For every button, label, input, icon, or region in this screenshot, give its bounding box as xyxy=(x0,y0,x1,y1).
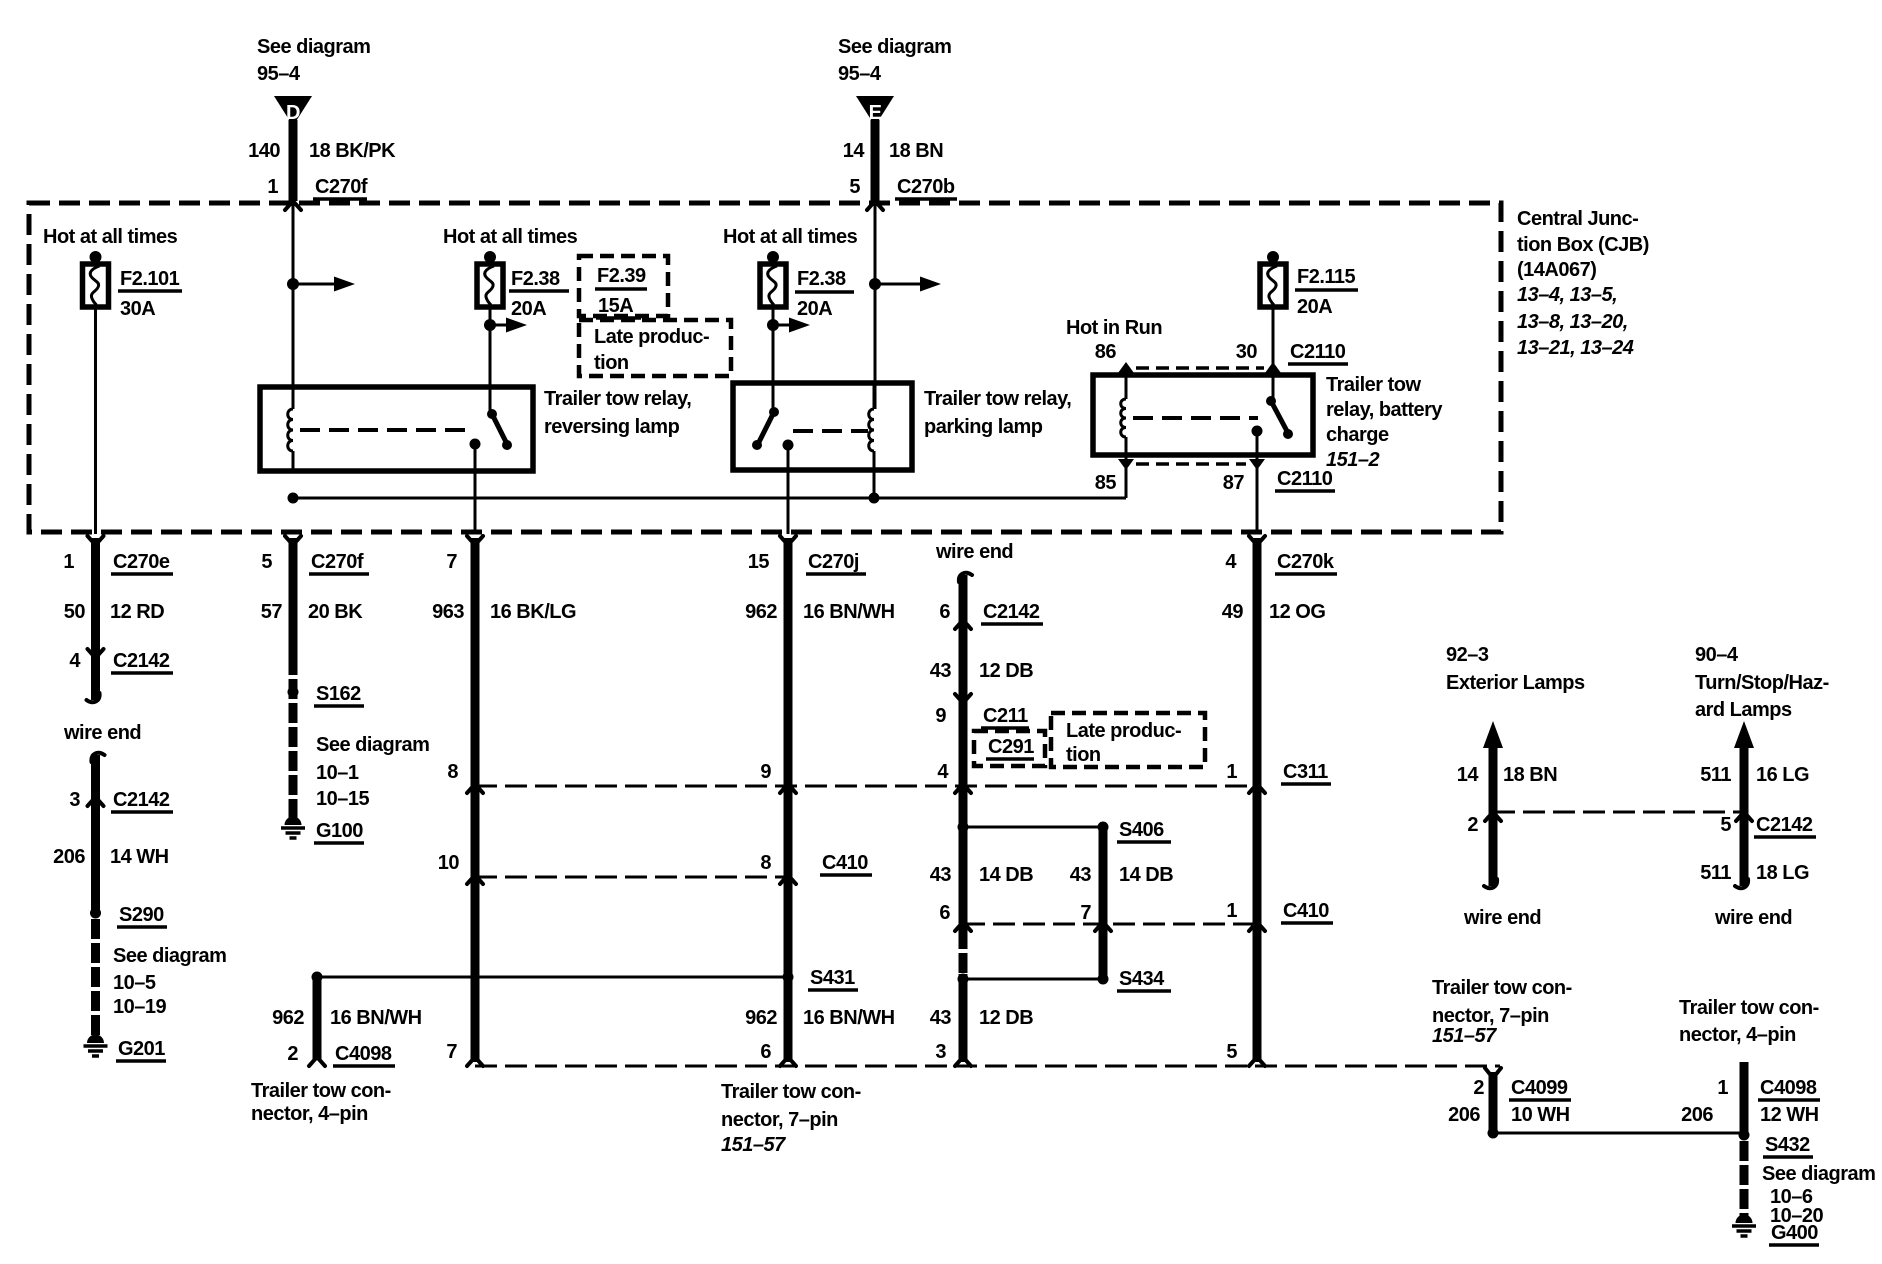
svg-text:F2.39: F2.39 xyxy=(597,265,646,287)
svg-text:151–2: 151–2 xyxy=(1326,449,1379,471)
svg-text:See diagram: See diagram xyxy=(838,36,951,58)
dashed link line pins 8-9-4-1 (C311 row) xyxy=(475,785,1257,788)
svg-text:95–4: 95–4 xyxy=(257,63,301,85)
svg-text:C4099: C4099 xyxy=(1511,1077,1568,1099)
svg-text:9: 9 xyxy=(935,705,946,727)
pin 2 chevron xyxy=(1467,812,1501,836)
label 962 16 BN/WH (upper) xyxy=(745,601,894,623)
relay 3 pin 86 arrow xyxy=(1118,362,1134,399)
svg-text:Hot in Run: Hot in Run xyxy=(1066,317,1162,339)
svg-text:Hot at all times: Hot at all times xyxy=(723,226,858,248)
label 511 18 LG xyxy=(1700,862,1809,884)
label wire end (center) xyxy=(935,541,1013,563)
svg-text:parking lamp: parking lamp xyxy=(924,416,1043,438)
svg-text:18 BK/PK: 18 BK/PK xyxy=(309,140,396,162)
svg-text:10–5: 10–5 xyxy=(113,972,156,994)
label 511 16 LG xyxy=(1700,764,1809,786)
svg-text:962: 962 xyxy=(745,1007,777,1029)
fuse F2.101 30A xyxy=(83,251,109,307)
dashed option box: Late production (connector) xyxy=(1051,713,1205,767)
svg-text:Hot at all times: Hot at all times xyxy=(443,226,578,248)
svg-text:43: 43 xyxy=(930,1007,952,1029)
relay 3 pin 85 arrow and wire xyxy=(1118,455,1134,498)
relay K: trailer tow relay, reversing lamp (box) xyxy=(260,387,533,471)
relay 2 switch blade xyxy=(752,407,779,450)
wire from S290 to G201 xyxy=(91,919,100,1036)
label 962 16 BN/WH (lower) xyxy=(745,1007,894,1029)
svg-text:10–19: 10–19 xyxy=(113,996,166,1018)
label 2 C4099 xyxy=(1473,1077,1571,1100)
svg-text:wire end: wire end xyxy=(1714,907,1792,929)
svg-text:1: 1 xyxy=(267,176,278,198)
dashed link line pins 10-8 (C410 row) xyxy=(475,876,788,879)
label: Hot at all times (F2.38 b) xyxy=(723,226,858,248)
connector C4099 pin 2 wire (10 WH) xyxy=(1485,1068,1501,1133)
dashed option box: fuse F2.39 15A xyxy=(579,256,668,318)
dashed link exterior lamps to turn/stop lamps xyxy=(1493,811,1744,814)
label: Trailer tow relay, parking lamp xyxy=(924,388,1071,438)
splice S434 xyxy=(1098,968,1172,991)
svg-text:3: 3 xyxy=(69,789,80,811)
svg-text:Trailer tow relay,: Trailer tow relay, xyxy=(924,388,1071,410)
svg-text:relay, battery: relay, battery xyxy=(1326,399,1443,421)
label: Trailer tow connector, 4-pin (right) xyxy=(1679,997,1819,1046)
junction: reversing relay coil to bus xyxy=(288,493,299,504)
svg-text:9: 9 xyxy=(760,761,771,783)
wire: relay coil return bus to pin 85 xyxy=(293,497,1126,500)
svg-text:wire end: wire end xyxy=(63,722,141,744)
svg-text:20A: 20A xyxy=(511,298,546,320)
splice S162 xyxy=(288,683,365,706)
svg-text:12 OG: 12 OG xyxy=(1269,601,1325,623)
svg-text:reversing lamp: reversing lamp xyxy=(544,416,680,438)
junction C4099 to S432 xyxy=(1488,1128,1745,1139)
svg-text:Exterior Lamps: Exterior Lamps xyxy=(1446,672,1585,694)
connector E from diagram 95-4 xyxy=(856,96,894,126)
relay 3 pin 87 arrow and wire xyxy=(1249,455,1265,534)
splice S290 xyxy=(90,904,167,927)
note: see diagram 95-4 (left) xyxy=(257,36,370,85)
relay 3 internal dashed link xyxy=(1133,416,1258,420)
svg-text:15A: 15A xyxy=(598,295,633,317)
label 43 12 DB (upper) xyxy=(930,660,1033,682)
label 1 C270e xyxy=(63,551,173,574)
svg-text:15: 15 xyxy=(748,551,770,573)
svg-text:F2.101: F2.101 xyxy=(120,268,180,290)
svg-text:16 BN/WH: 16 BN/WH xyxy=(330,1007,422,1029)
pin 9 chevron xyxy=(760,761,796,793)
wire from fuse F2.38a to relay switch xyxy=(489,307,492,414)
connector C270j pin 15 wire (16 BN/WH) xyxy=(780,536,796,1066)
label 6 (bottom) xyxy=(760,1041,771,1063)
svg-text:18 LG: 18 LG xyxy=(1756,862,1809,884)
svg-text:tion: tion xyxy=(1066,744,1101,766)
junction to splice S434 xyxy=(958,974,1104,985)
connector C270b pin 5 (top) xyxy=(849,176,957,210)
svg-text:6: 6 xyxy=(939,902,950,924)
svg-text:C270e: C270e xyxy=(113,551,170,573)
relay K: trailer tow relay, parking lamp (box) xyxy=(733,383,912,470)
pin 7 chevron (x1103) xyxy=(1080,902,1111,931)
svg-text:511: 511 xyxy=(1700,862,1731,884)
connector C4098 pin 1 wire (12 WH) xyxy=(1740,1062,1749,1133)
svg-text:nector, 7–pin: nector, 7–pin xyxy=(1432,1005,1549,1027)
svg-text:Trailer tow con-: Trailer tow con- xyxy=(1679,997,1819,1019)
svg-text:See diagram: See diagram xyxy=(316,734,429,756)
fuse F2.38 20A (reversing lamp relay) xyxy=(477,251,503,307)
relay 3 connector C2110 top dashed xyxy=(1136,366,1264,370)
pin 6 chevron (x963) xyxy=(939,902,971,931)
svg-text:14 DB: 14 DB xyxy=(1119,864,1173,886)
svg-text:C270k: C270k xyxy=(1277,551,1335,573)
svg-text:Trailer tow con-: Trailer tow con- xyxy=(251,1080,391,1102)
svg-text:92–3: 92–3 xyxy=(1446,644,1489,666)
label 50 12 RD xyxy=(64,601,164,623)
svg-text:5: 5 xyxy=(261,551,272,573)
svg-text:16 BK/LG: 16 BK/LG xyxy=(490,601,576,623)
wire D: circuit 140 18 BK/PK xyxy=(289,120,298,201)
label: Trailer tow connector, 7-pin 151-57 (center) xyxy=(721,1081,861,1156)
svg-text:C410: C410 xyxy=(1283,900,1329,922)
connector C2142 pin 5 xyxy=(1720,812,1816,837)
wire E: circuit 14 18 BN xyxy=(871,120,880,201)
svg-text:tion: tion xyxy=(594,352,629,374)
label 962 16 BN/WH (4-pin) xyxy=(272,1007,421,1029)
label: Trailer tow connector, 7-pin 151-57 (right) xyxy=(1432,977,1572,1047)
svg-text:12 RD: 12 RD xyxy=(110,601,164,623)
ground G201 xyxy=(84,1035,167,1062)
relay 1 switch common contact xyxy=(470,439,481,535)
svg-text:C270j: C270j xyxy=(808,551,859,573)
label 49 12 OG xyxy=(1222,601,1326,623)
svg-text:30: 30 xyxy=(1236,341,1258,363)
svg-text:tion Box (CJB): tion Box (CJB) xyxy=(1517,234,1649,256)
svg-text:G400: G400 xyxy=(1771,1222,1818,1244)
junction node on E wire with branch arrow xyxy=(869,277,941,292)
relay 1 internal dashed link xyxy=(300,428,473,432)
label 206 12 WH xyxy=(1681,1104,1819,1126)
connector C4098 pin 2 xyxy=(287,1043,395,1066)
svg-text:F2.38: F2.38 xyxy=(797,268,846,290)
connector C2142 pin 3 xyxy=(69,789,173,812)
relay 3 switch blade xyxy=(1266,396,1293,439)
wire 12 DB center column xyxy=(955,573,972,1066)
svg-text:5: 5 xyxy=(1226,1041,1237,1063)
label 963 16 BK/LG xyxy=(432,601,576,623)
label F2.38 20A (b) xyxy=(795,268,854,320)
svg-text:10–15: 10–15 xyxy=(316,788,369,810)
svg-text:C4098: C4098 xyxy=(335,1043,392,1065)
label: Trailer tow relay, reversing lamp xyxy=(544,388,691,438)
svg-text:charge: charge xyxy=(1326,424,1389,446)
wire from fuse F2.115 to relay pin 30 xyxy=(1272,307,1275,401)
relay 1 switch blade xyxy=(487,409,512,450)
relay 1 coil xyxy=(288,387,293,471)
label 5 C270f xyxy=(261,551,369,574)
svg-text:wire end: wire end xyxy=(935,541,1013,563)
wire to exterior lamps (18 BN) with arrow xyxy=(1483,721,1503,888)
label 43 12 DB (lower) xyxy=(930,1007,1033,1029)
label 43 14 DB (right) xyxy=(1070,864,1173,886)
svg-text:1: 1 xyxy=(1717,1077,1728,1099)
wire from fuse F2.38b to relay switch xyxy=(772,307,775,412)
svg-text:C2142: C2142 xyxy=(113,650,170,672)
label wire end (exterior lamps) xyxy=(1463,907,1541,929)
label F2.115 20A xyxy=(1295,266,1358,318)
dashed link line pins 6-7-1 (C410 row 2) xyxy=(963,923,1257,926)
svg-text:30A: 30A xyxy=(120,298,155,320)
splice S406 xyxy=(1098,819,1172,842)
label 3 (bottom) xyxy=(935,1041,946,1063)
svg-text:95–4: 95–4 xyxy=(838,63,882,85)
label: Central Junction Box (CJB) xyxy=(1517,208,1649,359)
svg-text:C291: C291 xyxy=(988,736,1034,758)
svg-text:43: 43 xyxy=(930,660,952,682)
svg-text:8: 8 xyxy=(447,761,458,783)
svg-text:6: 6 xyxy=(939,601,950,623)
svg-text:C2142: C2142 xyxy=(983,601,1040,623)
label: 14 18 BN xyxy=(843,140,943,162)
note: see diagram 95-4 (right) xyxy=(838,36,951,85)
label 4 C270k xyxy=(1225,551,1337,574)
svg-text:S406: S406 xyxy=(1119,819,1164,841)
label 14 18 BN xyxy=(1457,764,1557,786)
fuse F2.38 20A (parking lamp relay) xyxy=(760,251,786,307)
connector C2142 pin 4 xyxy=(69,649,173,673)
label: Trailer tow relay, battery charge 151-2 xyxy=(1326,374,1443,471)
dashed option box: Late production (fuse) xyxy=(579,320,731,376)
fuse F2.115 20A xyxy=(1260,251,1286,307)
svg-text:Trailer tow con-: Trailer tow con- xyxy=(1432,977,1572,999)
svg-text:140: 140 xyxy=(248,140,280,162)
dashed link line bottom pins 7-6-3-5-2 xyxy=(475,1065,1500,1068)
svg-text:S431: S431 xyxy=(810,967,855,989)
connector C270e pin 1 wire (12 RD) xyxy=(87,536,104,702)
relay 1 switch feed wire inside box xyxy=(489,387,492,414)
svg-text:8: 8 xyxy=(760,852,771,874)
pin 8 chevron xyxy=(447,761,483,793)
svg-text:(14A067): (14A067) xyxy=(1517,259,1596,281)
label 57 20 BK xyxy=(261,601,363,623)
label wire end (left) xyxy=(63,722,141,744)
label F2.38 20A xyxy=(509,268,569,320)
relay 3 switch common contact xyxy=(1252,426,1263,456)
wire from fuse F2.101 down to C270e xyxy=(94,307,97,534)
label 7 (bottom) xyxy=(446,1041,457,1063)
svg-text:962: 962 xyxy=(272,1007,304,1029)
connector C211 pin 9 xyxy=(935,694,1029,728)
svg-text:G100: G100 xyxy=(316,820,363,842)
svg-text:1: 1 xyxy=(63,551,74,573)
svg-text:Trailer tow relay,: Trailer tow relay, xyxy=(544,388,691,410)
svg-text:F2.38: F2.38 xyxy=(511,268,560,290)
solid wire S431 to 4-pin connector xyxy=(317,976,788,979)
svg-text:wire end: wire end xyxy=(1463,907,1541,929)
svg-text:C2110: C2110 xyxy=(1277,468,1333,490)
svg-text:511: 511 xyxy=(1700,764,1731,786)
svg-text:nector, 7–pin: nector, 7–pin xyxy=(721,1109,838,1131)
splice S431 xyxy=(783,967,859,990)
junction: parking relay coil to bus xyxy=(869,493,880,504)
label wire end (turn lamps) xyxy=(1714,907,1792,929)
svg-text:18 BN: 18 BN xyxy=(1503,764,1557,786)
relay 3 connector C2110 bottom dashed xyxy=(1136,462,1246,466)
svg-text:S434: S434 xyxy=(1119,968,1165,990)
label: 140 18 BK/PK xyxy=(248,140,396,162)
svg-text:86: 86 xyxy=(1095,341,1117,363)
svg-text:2: 2 xyxy=(287,1043,298,1065)
svg-text:4: 4 xyxy=(1225,551,1237,573)
svg-text:C2110: C2110 xyxy=(1290,341,1346,363)
svg-text:See diagram: See diagram xyxy=(1762,1163,1875,1185)
svg-text:S290: S290 xyxy=(119,904,164,926)
note: 90-4 Turn/Stop/Hazard Lamps xyxy=(1695,644,1829,721)
connector D from diagram 95-4 xyxy=(274,96,312,126)
svg-text:C270b: C270b xyxy=(897,176,955,198)
svg-text:3: 3 xyxy=(935,1041,946,1063)
svg-text:7: 7 xyxy=(1080,902,1091,924)
note: see diagram 10-5 10-19 xyxy=(113,945,226,1018)
wire segment C2142 pin 3 (14 WH) xyxy=(91,753,104,913)
svg-text:Trailer tow con-: Trailer tow con- xyxy=(721,1081,861,1103)
svg-text:963: 963 xyxy=(432,601,464,623)
label 206 14 WH xyxy=(53,846,169,868)
labels 85 / 87 / C2110 bottom xyxy=(1095,468,1335,494)
svg-text:7: 7 xyxy=(446,551,457,573)
Central Junction Box dashed outline xyxy=(29,203,1501,532)
svg-text:Turn/Stop/Haz-: Turn/Stop/Haz- xyxy=(1695,672,1829,694)
svg-text:43: 43 xyxy=(930,864,952,886)
svg-text:90–4: 90–4 xyxy=(1695,644,1739,666)
relay 2 internal dashed link xyxy=(793,429,868,433)
svg-text:C311: C311 xyxy=(1283,761,1328,783)
svg-text:ard Lamps: ard Lamps xyxy=(1695,699,1792,721)
label 5 (bottom) xyxy=(1226,1041,1237,1063)
svg-text:20A: 20A xyxy=(1297,296,1332,318)
label 7 (top) xyxy=(446,551,457,573)
svg-text:57: 57 xyxy=(261,601,283,623)
svg-text:4: 4 xyxy=(937,761,949,783)
svg-text:Late produc-: Late produc- xyxy=(1066,720,1181,742)
svg-text:C410: C410 xyxy=(822,852,868,874)
label F2.101 30A xyxy=(118,268,182,320)
svg-text:See diagram: See diagram xyxy=(113,945,226,967)
svg-text:nector, 4–pin: nector, 4–pin xyxy=(1679,1024,1796,1046)
svg-text:See diagram: See diagram xyxy=(257,36,370,58)
note: see diagram 10-1 10-15 xyxy=(316,734,429,810)
connector C270f pin 5 wire (20 BK) xyxy=(285,536,301,655)
svg-text:151–57: 151–57 xyxy=(1432,1025,1497,1047)
junction for 4-pin connector branch xyxy=(312,972,323,983)
svg-text:206: 206 xyxy=(53,846,85,868)
relay K: trailer tow relay, battery charge (box) xyxy=(1093,375,1313,455)
svg-text:1: 1 xyxy=(1226,761,1237,783)
wire to turn/stop/hazard lamps (16 LG) with arrow xyxy=(1734,721,1754,888)
svg-text:14 DB: 14 DB xyxy=(979,864,1033,886)
label: Hot in Run xyxy=(1066,317,1162,339)
svg-text:206: 206 xyxy=(1448,1104,1480,1126)
svg-text:F2.115: F2.115 xyxy=(1297,266,1356,288)
ground G400 xyxy=(1732,1215,1819,1246)
svg-text:43: 43 xyxy=(1070,864,1092,886)
svg-text:2: 2 xyxy=(1473,1077,1484,1099)
svg-text:13–8, 13–20,: 13–8, 13–20, xyxy=(1517,311,1628,333)
svg-text:Central Junc-: Central Junc- xyxy=(1517,208,1638,230)
svg-text:87: 87 xyxy=(1223,472,1245,494)
svg-text:962: 962 xyxy=(745,601,777,623)
svg-text:nector, 4–pin: nector, 4–pin xyxy=(251,1103,368,1125)
label 15 C270j xyxy=(748,551,866,574)
svg-text:14: 14 xyxy=(1457,764,1480,786)
wire D inside CJB down to reversing relay coil xyxy=(292,203,295,409)
svg-text:20 BK: 20 BK xyxy=(308,601,363,623)
connector C410 pin 1 xyxy=(1226,900,1333,931)
labels 86 / 30 / C2110 top xyxy=(1095,341,1348,364)
svg-text:12 WH: 12 WH xyxy=(1760,1104,1819,1126)
svg-text:Late produc-: Late produc- xyxy=(594,326,709,348)
junction node on D wire with branch arrow xyxy=(287,277,355,292)
wire S406 branch down to S434 xyxy=(1099,827,1108,979)
relay 3 pin 30 arrow xyxy=(1265,362,1281,401)
connector C270f pin 1 (top) xyxy=(267,176,367,210)
svg-text:16 LG: 16 LG xyxy=(1756,764,1809,786)
svg-text:151–57: 151–57 xyxy=(721,1134,786,1156)
relay 2 switch common contact xyxy=(783,440,794,535)
svg-text:50: 50 xyxy=(64,601,86,623)
label 206 10 WH xyxy=(1448,1104,1570,1126)
connector C311 pin 1 xyxy=(1226,761,1331,793)
wire 963 16 BK/LG (pin 7) xyxy=(467,536,483,1066)
svg-text:14: 14 xyxy=(843,140,866,162)
svg-text:G201: G201 xyxy=(118,1038,165,1060)
svg-text:C270f: C270f xyxy=(315,176,368,198)
svg-text:Trailer tow: Trailer tow xyxy=(1326,374,1421,396)
label: Hot at all times (F2.101) xyxy=(43,226,178,248)
svg-text:1: 1 xyxy=(1226,900,1237,922)
svg-text:5: 5 xyxy=(1720,814,1731,836)
svg-text:Hot at all times: Hot at all times xyxy=(43,226,178,248)
svg-text:10 WH: 10 WH xyxy=(1511,1104,1570,1126)
wire 962 16 BN/WH to C4098 pin 2 xyxy=(309,977,325,1066)
ground G100 xyxy=(281,817,364,844)
pin 10 chevron xyxy=(438,852,483,884)
note: see diagram 10-6 10-20 xyxy=(1762,1163,1875,1227)
svg-text:85: 85 xyxy=(1095,472,1117,494)
note: 92-3 Exterior Lamps xyxy=(1446,644,1585,694)
svg-text:C211: C211 xyxy=(983,705,1028,727)
junction node on F2.38a wire with branch arrow xyxy=(484,318,527,333)
svg-text:16 BN/WH: 16 BN/WH xyxy=(803,1007,895,1029)
svg-text:6: 6 xyxy=(760,1041,771,1063)
relay 3 coil xyxy=(1121,399,1126,455)
wire E inside CJB down to parking relay coil xyxy=(874,203,877,409)
pin 4 chevron xyxy=(937,761,971,793)
wire S162 to G100 xyxy=(289,655,298,818)
label 43 14 DB (left) xyxy=(930,864,1033,886)
connector C2142 pin 6 xyxy=(939,601,1043,629)
svg-text:14 WH: 14 WH xyxy=(110,846,169,868)
svg-text:4: 4 xyxy=(69,650,81,672)
svg-text:12 DB: 12 DB xyxy=(979,660,1033,682)
svg-text:49: 49 xyxy=(1222,601,1244,623)
svg-text:7: 7 xyxy=(446,1041,457,1063)
svg-text:13–21, 13–24: 13–21, 13–24 xyxy=(1517,337,1634,359)
svg-text:C270f: C270f xyxy=(311,551,364,573)
label: Hot at all times (F2.38 a) xyxy=(443,226,578,248)
wire S432 to G400 xyxy=(1740,1141,1749,1216)
svg-text:S432: S432 xyxy=(1765,1134,1810,1156)
connector C410 pin 8 xyxy=(760,852,872,884)
